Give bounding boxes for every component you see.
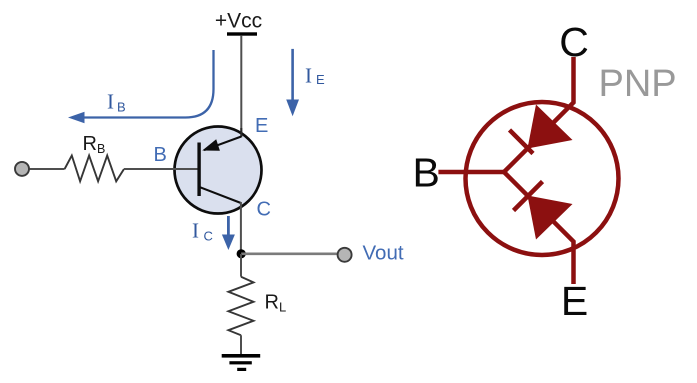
svg-text:B: B bbox=[154, 144, 167, 166]
svg-text:C: C bbox=[559, 19, 589, 65]
svg-text:E: E bbox=[561, 278, 588, 324]
svg-text:PNP: PNP bbox=[599, 63, 677, 105]
svg-text:B: B bbox=[117, 100, 126, 115]
svg-text:Vout: Vout bbox=[363, 242, 404, 265]
svg-text:B: B bbox=[413, 150, 440, 196]
svg-text:I: I bbox=[305, 63, 312, 87]
svg-text:C: C bbox=[257, 199, 271, 221]
svg-text:E: E bbox=[255, 115, 268, 137]
svg-text:C: C bbox=[204, 229, 213, 244]
svg-text:I: I bbox=[107, 90, 114, 114]
svg-text:E: E bbox=[316, 72, 325, 87]
svg-text:I: I bbox=[192, 218, 199, 242]
svg-text:+Vcc: +Vcc bbox=[215, 10, 262, 33]
